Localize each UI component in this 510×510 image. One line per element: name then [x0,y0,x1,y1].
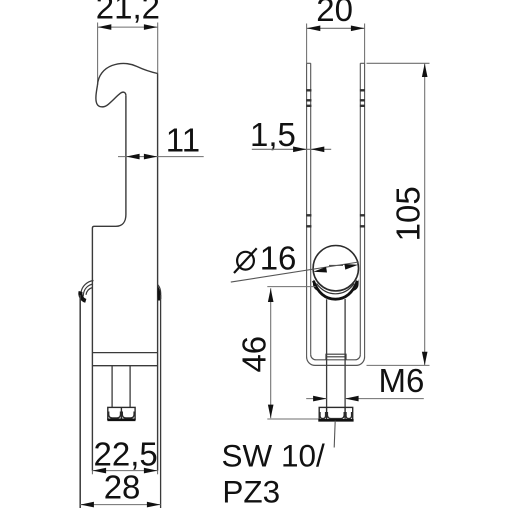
svg-text:16: 16 [260,240,297,277]
svg-text:M6: M6 [379,362,425,399]
leader line to SW10/PZ3 [334,421,335,448]
svg-text:1,5: 1,5 [250,116,296,153]
hex head bottom edge front [318,419,353,422]
svg-text:105: 105 [390,186,427,241]
dimension 1,5 arrows [293,147,324,153]
svg-text:SW 10/: SW 10/ [222,437,326,473]
dimension 20 arrows [307,26,365,32]
ball seat thick bottom arc [313,281,357,299]
clamping ball [313,246,358,291]
dimension M6 arrows [313,396,359,402]
dimension 28 line [80,504,160,506]
dimension 28 arrows [80,502,160,508]
dimension 20 line [307,24,365,64]
svg-text:21,2: 21,2 [96,0,160,26]
dimension 46 lines [267,287,319,419]
ball center mark [329,264,343,266]
dimension 22,5 arrows [93,468,158,474]
dimension 11 arrows [126,154,157,160]
diameter 16 arrows [313,264,358,273]
U profile left wall [307,63,311,357]
svg-text:22,5: 22,5 [94,436,158,473]
dimension 46 arrows [268,289,274,419]
svg-text:PZ3: PZ3 [222,473,280,509]
pressure plate bottom line [92,365,157,367]
svg-text:20: 20 [316,0,353,28]
diameter symbol [234,248,257,273]
dimension 105 arrows [422,64,428,366]
ball seat left ear [313,279,319,291]
dimension 21,2 line [98,23,158,86]
extension line stubs below 22,5 dim [92,471,157,475]
hook profile left curl [96,85,126,107]
hex head side view [108,407,135,419]
hex head bottom edge [107,418,135,421]
screw shank front view [327,299,346,407]
hook profile outer top edge [98,64,158,85]
profile right edge [157,74,159,471]
wall bend marks band 1 [306,90,365,106]
dimension 105 line [367,63,430,365]
U profile right wall [360,63,364,357]
right fold edge [158,285,161,300]
dimension 1,5 line [252,148,331,150]
diameter 16 leader line [231,262,359,282]
dimension 21,2 arrows [98,24,158,30]
dimension 11 line [118,156,204,158]
svg-text:11: 11 [166,122,200,159]
left rolled edge dark tip [80,292,85,301]
ball seat thin top arc [317,284,355,294]
left rolled edge arcs [81,281,94,298]
ball seat right ear [353,279,359,291]
body outer right edge [160,295,162,508]
wall bend marks band 2 [306,215,365,226]
dimension 22,5 line [92,470,157,472]
svg-text:28: 28 [104,468,141,505]
hex head front view [319,407,353,420]
right fold dark tip [158,286,161,301]
profile inner edge with step [92,96,126,471]
captive nut plate [326,354,346,360]
screw shank side view [112,366,130,408]
svg-text:46: 46 [236,336,273,373]
U profile bottom inner [311,355,361,360]
U profile bottom outer [307,357,365,366]
pressure plate top line [92,352,157,354]
dimension M6 line [306,398,424,400]
body outer left edge [79,295,81,508]
